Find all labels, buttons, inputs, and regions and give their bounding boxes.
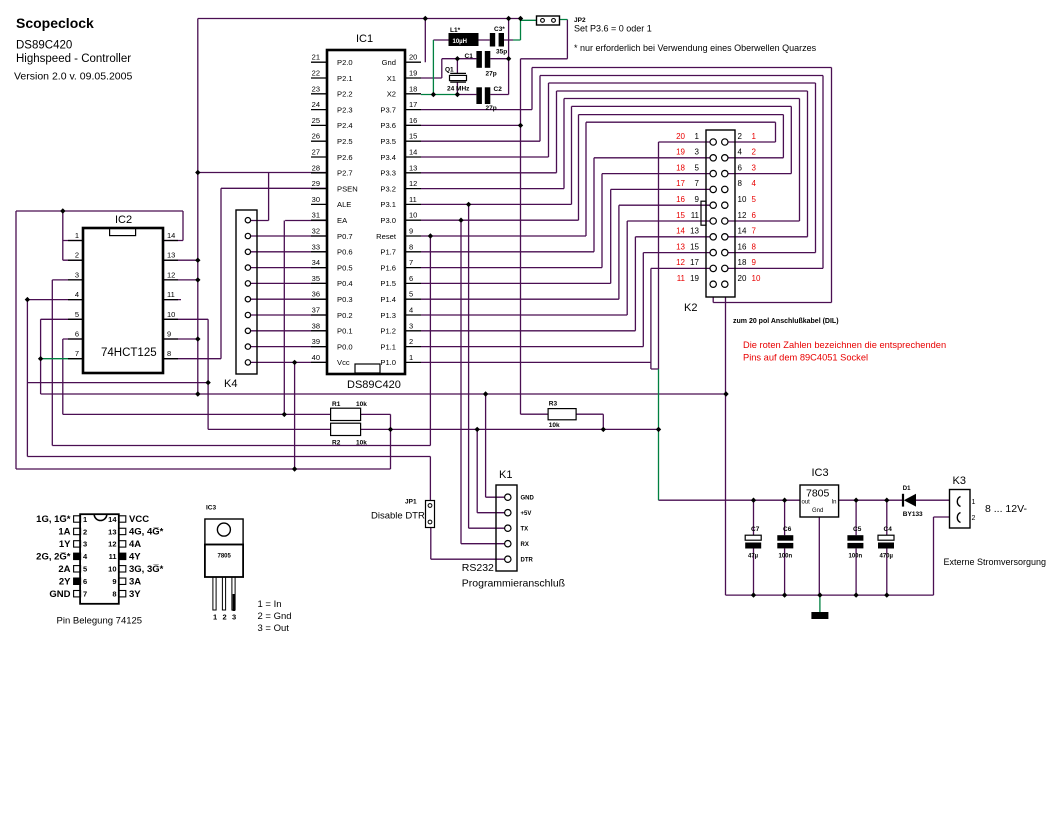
svg-text:13: 13 <box>676 242 685 251</box>
svg-text:100n: 100n <box>849 554 863 560</box>
svg-text:37: 37 <box>312 306 320 315</box>
svg-text:P2.5: P2.5 <box>337 137 353 146</box>
svg-text:IC1: IC1 <box>356 33 373 45</box>
svg-text:14: 14 <box>738 227 747 236</box>
svg-text:C6: C6 <box>783 526 792 533</box>
svg-text:9: 9 <box>167 330 171 339</box>
svg-text:BY133: BY133 <box>903 511 923 518</box>
svg-text:31: 31 <box>312 211 320 220</box>
svg-text:P3.6: P3.6 <box>380 121 396 130</box>
svg-text:P2.3: P2.3 <box>337 105 353 114</box>
svg-text:6: 6 <box>752 211 757 220</box>
svg-text:1 = In: 1 = In <box>258 599 282 610</box>
svg-text:12: 12 <box>676 258 685 267</box>
svg-text:3: 3 <box>409 321 413 330</box>
svg-text:16: 16 <box>409 116 417 125</box>
svg-text:JP1: JP1 <box>405 499 417 506</box>
svg-text:4: 4 <box>738 148 743 157</box>
svg-text:2G, 2G̅*: 2G, 2G̅* <box>36 552 71 563</box>
svg-text:5: 5 <box>695 163 700 172</box>
svg-text:4Y: 4Y <box>129 552 141 563</box>
svg-text:EA: EA <box>337 216 348 225</box>
svg-text:9: 9 <box>752 258 757 267</box>
svg-text:P3.1: P3.1 <box>380 200 396 209</box>
svg-text:14: 14 <box>676 227 685 236</box>
svg-text:Disable DTR: Disable DTR <box>371 511 425 522</box>
svg-text:IC2: IC2 <box>115 214 132 226</box>
svg-text:4A: 4A <box>129 539 141 550</box>
svg-text:8: 8 <box>112 590 116 599</box>
svg-text:10µH: 10µH <box>453 39 467 45</box>
svg-text:21: 21 <box>312 53 320 62</box>
svg-text:K3: K3 <box>953 475 966 487</box>
svg-text:P1.7: P1.7 <box>380 248 396 257</box>
svg-text:VCC: VCC <box>129 514 149 525</box>
svg-text:L1*: L1* <box>450 27 461 34</box>
svg-text:1A: 1A <box>58 527 70 538</box>
svg-text:PSEN: PSEN <box>337 184 358 193</box>
svg-text:Pins auf dem 89C4051 Sockel: Pins auf dem 89C4051 Sockel <box>743 353 868 363</box>
svg-text:P2.1: P2.1 <box>337 74 353 83</box>
svg-text:19: 19 <box>690 274 699 283</box>
svg-text:Gnd: Gnd <box>382 58 396 67</box>
svg-text:Die roten Zahlen bezeichnen di: Die roten Zahlen bezeichnen die entsprec… <box>743 340 946 350</box>
svg-text:28: 28 <box>312 163 320 172</box>
svg-text:2: 2 <box>738 132 743 141</box>
svg-text:4: 4 <box>75 290 79 299</box>
svg-text:9: 9 <box>409 227 413 236</box>
svg-text:7: 7 <box>752 227 757 236</box>
svg-text:24: 24 <box>312 100 320 109</box>
svg-text:14: 14 <box>108 515 117 524</box>
svg-text:11: 11 <box>109 552 117 561</box>
svg-text:ALE: ALE <box>337 200 351 209</box>
svg-text:39: 39 <box>312 337 320 346</box>
svg-text:1Y: 1Y <box>59 539 71 550</box>
svg-text:10: 10 <box>409 211 417 220</box>
svg-text:out: out <box>802 500 811 506</box>
svg-text:P0.2: P0.2 <box>337 311 353 320</box>
svg-text:17: 17 <box>409 100 417 109</box>
svg-text:3: 3 <box>232 613 236 622</box>
svg-text:1G, 1G̅*: 1G, 1G̅* <box>36 514 71 525</box>
svg-text:16: 16 <box>738 242 747 251</box>
svg-text:Externe Stromversorgung: Externe Stromversorgung <box>944 557 1047 567</box>
svg-text:C4: C4 <box>884 526 893 533</box>
svg-text:34: 34 <box>312 258 320 267</box>
svg-text:9: 9 <box>695 195 700 204</box>
svg-text:5: 5 <box>75 310 79 319</box>
svg-text:Programmieranschluß: Programmieranschluß <box>462 578 565 590</box>
svg-text:TX: TX <box>521 526 529 532</box>
svg-text:24 MHz: 24 MHz <box>447 86 470 93</box>
svg-text:P0.1: P0.1 <box>337 327 353 336</box>
svg-text:4G, 4G̅*: 4G, 4G̅* <box>129 527 164 538</box>
svg-text:20: 20 <box>676 132 685 141</box>
svg-text:2 = Gnd: 2 = Gnd <box>258 611 292 622</box>
svg-text:74HCT125: 74HCT125 <box>101 347 157 359</box>
svg-text:10: 10 <box>108 565 116 574</box>
svg-text:In: In <box>831 500 836 506</box>
svg-text:2: 2 <box>83 527 87 536</box>
svg-text:X2: X2 <box>387 90 396 99</box>
svg-text:27: 27 <box>312 148 320 157</box>
svg-text:DS89C420: DS89C420 <box>16 40 72 52</box>
svg-text:1: 1 <box>75 231 79 240</box>
svg-text:P0.3: P0.3 <box>337 295 353 304</box>
svg-text:12: 12 <box>738 211 747 220</box>
svg-text:8: 8 <box>752 242 757 251</box>
svg-text:P0.0: P0.0 <box>337 342 353 351</box>
svg-text:C7: C7 <box>751 526 760 533</box>
svg-text:P0.5: P0.5 <box>337 263 353 272</box>
svg-text:14: 14 <box>167 231 175 240</box>
svg-text:1: 1 <box>213 613 217 622</box>
svg-text:32: 32 <box>312 227 320 236</box>
svg-text:6: 6 <box>738 163 743 172</box>
svg-text:7805: 7805 <box>218 554 232 560</box>
svg-text:P1.1: P1.1 <box>380 342 396 351</box>
svg-text:19: 19 <box>676 148 685 157</box>
svg-text:P3.2: P3.2 <box>380 184 396 193</box>
svg-text:2Y: 2Y <box>59 576 71 587</box>
svg-text:35: 35 <box>312 274 320 283</box>
svg-text:11: 11 <box>677 274 686 283</box>
svg-text:3: 3 <box>75 270 79 279</box>
svg-text:RS232: RS232 <box>462 562 494 574</box>
svg-text:K1: K1 <box>499 469 512 481</box>
svg-text:P3.3: P3.3 <box>380 169 396 178</box>
svg-text:8: 8 <box>738 179 743 188</box>
svg-text:26: 26 <box>312 132 320 141</box>
svg-text:C1: C1 <box>465 53 474 60</box>
svg-text:25: 25 <box>312 116 320 125</box>
svg-text:C2: C2 <box>494 86 503 93</box>
svg-text:7: 7 <box>83 590 87 599</box>
svg-text:5: 5 <box>409 290 413 299</box>
svg-text:23: 23 <box>312 84 320 93</box>
svg-text:P3.5: P3.5 <box>380 137 396 146</box>
svg-text:K2: K2 <box>684 302 697 314</box>
svg-text:3: 3 <box>695 148 700 157</box>
svg-text:7: 7 <box>695 179 700 188</box>
svg-text:8 ... 12V-: 8 ... 12V- <box>985 503 1028 515</box>
svg-text:13: 13 <box>167 251 175 260</box>
svg-text:3: 3 <box>752 163 757 172</box>
svg-text:12: 12 <box>409 179 417 188</box>
svg-text:7805: 7805 <box>806 488 830 500</box>
svg-text:8: 8 <box>409 242 413 251</box>
svg-text:13: 13 <box>108 527 116 536</box>
svg-text:15: 15 <box>676 211 685 220</box>
svg-text:27p: 27p <box>486 71 497 78</box>
svg-text:27p: 27p <box>486 105 497 112</box>
svg-text:14: 14 <box>409 148 417 157</box>
svg-text:5: 5 <box>83 565 87 574</box>
svg-text:Version 2.0 v. 09.05.2005: Version 2.0 v. 09.05.2005 <box>14 71 132 83</box>
svg-text:13: 13 <box>409 163 417 172</box>
svg-text:2: 2 <box>223 613 227 622</box>
svg-text:15: 15 <box>690 242 699 251</box>
svg-text:* nur erforderlich bei Verwend: * nur erforderlich bei Verwendung eines … <box>574 43 817 53</box>
svg-text:Scopeclock: Scopeclock <box>16 15 94 31</box>
svg-text:10: 10 <box>752 274 761 283</box>
svg-text:P0.6: P0.6 <box>337 248 353 257</box>
svg-text:2A: 2A <box>58 564 70 575</box>
svg-text:DTR: DTR <box>521 557 534 563</box>
svg-text:Set P3.6 = 0 oder 1: Set P3.6 = 0 oder 1 <box>574 24 652 34</box>
svg-text:6: 6 <box>409 274 413 283</box>
svg-text:2: 2 <box>972 515 976 522</box>
svg-text:33: 33 <box>312 242 320 251</box>
svg-text:P1.0: P1.0 <box>380 358 396 367</box>
svg-text:P0.7: P0.7 <box>337 232 353 241</box>
svg-text:P2.6: P2.6 <box>337 153 353 162</box>
svg-text:19: 19 <box>409 69 417 78</box>
svg-text:20: 20 <box>409 53 417 62</box>
svg-text:12: 12 <box>108 540 116 549</box>
svg-text:12: 12 <box>167 270 175 279</box>
svg-text:P2.7: P2.7 <box>337 169 353 178</box>
svg-text:2: 2 <box>409 337 413 346</box>
svg-text:13: 13 <box>690 227 699 236</box>
svg-text:P1.3: P1.3 <box>380 311 396 320</box>
svg-text:18: 18 <box>409 84 417 93</box>
svg-text:+5V: +5V <box>521 511 532 517</box>
svg-text:1: 1 <box>409 353 413 362</box>
svg-text:18: 18 <box>676 163 685 172</box>
svg-text:Q1: Q1 <box>445 67 454 74</box>
svg-text:20: 20 <box>738 274 747 283</box>
svg-text:10k: 10k <box>356 440 367 447</box>
svg-text:10k: 10k <box>549 422 560 429</box>
svg-text:470µ: 470µ <box>880 554 894 560</box>
svg-text:P3.7: P3.7 <box>380 105 396 114</box>
svg-text:5: 5 <box>752 195 757 204</box>
svg-text:P2.0: P2.0 <box>337 58 353 67</box>
svg-text:8: 8 <box>167 349 171 358</box>
svg-text:100n: 100n <box>779 554 793 560</box>
svg-text:40: 40 <box>312 353 320 362</box>
svg-text:R3: R3 <box>549 401 558 408</box>
svg-text:GND: GND <box>49 589 70 600</box>
svg-text:29: 29 <box>312 179 320 188</box>
svg-text:C3*: C3* <box>494 26 505 33</box>
svg-text:3: 3 <box>83 540 87 549</box>
svg-text:10: 10 <box>167 310 175 319</box>
svg-text:36: 36 <box>312 290 320 299</box>
svg-text:P1.2: P1.2 <box>380 327 396 336</box>
svg-text:18: 18 <box>738 258 747 267</box>
svg-text:P2.2: P2.2 <box>337 90 353 99</box>
svg-text:RX: RX <box>521 542 529 548</box>
svg-text:11: 11 <box>691 211 700 220</box>
svg-text:K4: K4 <box>224 378 237 390</box>
svg-text:17: 17 <box>676 179 685 188</box>
svg-text:P3.4: P3.4 <box>380 153 396 162</box>
svg-text:9: 9 <box>112 577 116 586</box>
svg-text:1: 1 <box>752 132 757 141</box>
svg-text:10: 10 <box>738 195 747 204</box>
svg-text:GND: GND <box>521 495 535 501</box>
svg-text:15: 15 <box>409 132 417 141</box>
svg-text:3Y: 3Y <box>129 589 141 600</box>
svg-text:38: 38 <box>312 321 320 330</box>
svg-text:7: 7 <box>75 349 79 358</box>
svg-text:2: 2 <box>752 148 757 157</box>
svg-text:10k: 10k <box>356 401 367 408</box>
svg-text:4: 4 <box>409 306 413 315</box>
svg-text:IC3: IC3 <box>206 505 217 512</box>
svg-text:Gnd: Gnd <box>812 508 823 514</box>
svg-text:11: 11 <box>167 290 175 299</box>
svg-text:R1: R1 <box>332 401 341 408</box>
svg-text:C5: C5 <box>853 526 862 533</box>
svg-text:Reset: Reset <box>376 232 397 241</box>
svg-text:P1.5: P1.5 <box>380 279 396 288</box>
svg-text:IC3: IC3 <box>812 467 829 479</box>
svg-text:P2.4: P2.4 <box>337 121 353 130</box>
svg-text:47µ: 47µ <box>748 554 759 560</box>
svg-text:P0.4: P0.4 <box>337 279 353 288</box>
svg-text:3G, 3G̅*: 3G, 3G̅* <box>129 564 164 575</box>
svg-text:16: 16 <box>676 195 685 204</box>
svg-text:7: 7 <box>409 258 413 267</box>
svg-text:DS89C420: DS89C420 <box>347 379 401 391</box>
svg-text:6: 6 <box>75 330 79 339</box>
svg-text:P1.6: P1.6 <box>380 263 396 272</box>
svg-text:P3.0: P3.0 <box>380 216 396 225</box>
svg-text:30: 30 <box>312 195 320 204</box>
svg-text:zum 20 pol Anschlußkabel (DIL): zum 20 pol Anschlußkabel (DIL) <box>733 318 839 325</box>
svg-text:2: 2 <box>75 251 79 260</box>
svg-text:P1.4: P1.4 <box>380 295 396 304</box>
svg-text:Highspeed - Controller: Highspeed - Controller <box>16 53 131 65</box>
svg-text:3A: 3A <box>129 576 141 587</box>
svg-text:17: 17 <box>690 258 699 267</box>
svg-text:D1: D1 <box>903 486 911 492</box>
svg-text:1: 1 <box>83 515 87 524</box>
svg-text:11: 11 <box>409 195 417 204</box>
svg-text:35p: 35p <box>496 49 507 56</box>
svg-text:1: 1 <box>972 499 976 506</box>
svg-text:Pin Belegung 74125: Pin Belegung 74125 <box>57 616 143 627</box>
svg-text:Vcc: Vcc <box>337 358 350 367</box>
svg-text:1: 1 <box>695 132 700 141</box>
svg-text:4: 4 <box>752 179 757 188</box>
svg-text:X1: X1 <box>387 74 396 83</box>
svg-text:3 = Out: 3 = Out <box>258 623 290 634</box>
svg-text:6: 6 <box>83 577 87 586</box>
svg-text:22: 22 <box>312 69 320 78</box>
svg-text:R2: R2 <box>332 440 341 447</box>
